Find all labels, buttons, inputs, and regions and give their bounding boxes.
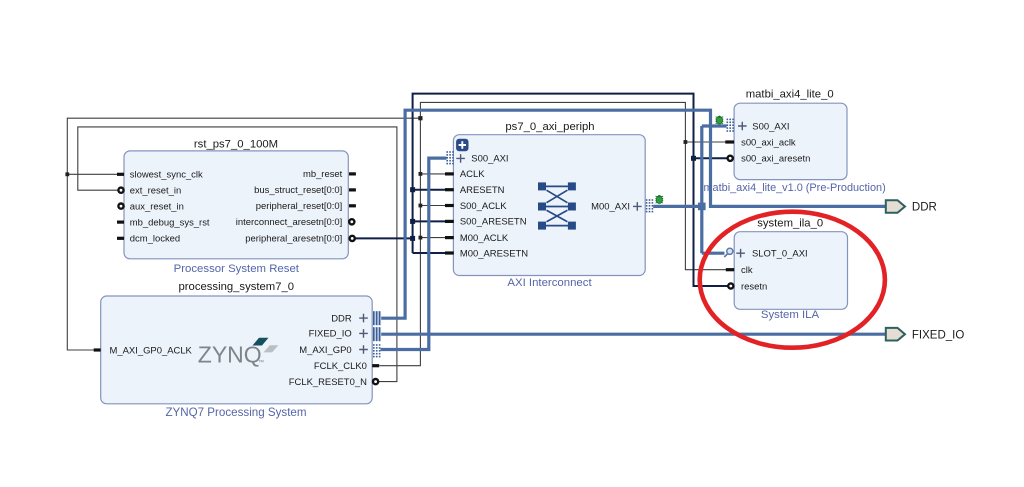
svg-text:S00_ACLK: S00_ACLK [460, 201, 507, 212]
svg-text:ZYNQ7 Processing System: ZYNQ7 Processing System [165, 406, 306, 419]
svg-text:s00_axi_aresetn: s00_axi_aresetn [741, 154, 810, 165]
svg-text:peripheral_aresetn[0:0]: peripheral_aresetn[0:0] [245, 233, 342, 244]
svg-text:S00_AXI: S00_AXI [471, 153, 508, 164]
svg-text:clk: clk [741, 265, 753, 276]
svg-text:ps7_0_axi_periph: ps7_0_axi_periph [505, 121, 594, 133]
svg-text:M00_ARESETN: M00_ARESETN [460, 248, 528, 259]
svg-text:DDR: DDR [331, 313, 352, 324]
svg-text:System ILA: System ILA [761, 309, 820, 321]
svg-text:matbi_axi4_lite_0: matbi_axi4_lite_0 [746, 89, 834, 101]
svg-text:FCLK_RESET0_N: FCLK_RESET0_N [289, 377, 367, 388]
svg-text:M_AXI_GP0: M_AXI_GP0 [299, 345, 351, 356]
svg-text:s00_axi_aclk: s00_axi_aclk [741, 137, 796, 148]
svg-text:M00_AXI: M00_AXI [591, 202, 630, 213]
svg-text:interconnect_aresetn[0:0]: interconnect_aresetn[0:0] [236, 217, 343, 228]
svg-text:AXI Interconnect: AXI Interconnect [507, 277, 592, 289]
svg-text:FIXED_IO: FIXED_IO [912, 329, 964, 341]
svg-text:DDR: DDR [912, 202, 937, 214]
svg-text:M00_ACLK: M00_ACLK [460, 233, 509, 244]
svg-text:matbi_axi4_lite_v1.0 (Pre-Prod: matbi_axi4_lite_v1.0 (Pre-Production) [703, 182, 885, 194]
svg-text:M_AXI_GP0_ACLK: M_AXI_GP0_ACLK [110, 345, 193, 356]
svg-text:mb_reset: mb_reset [303, 169, 343, 180]
svg-text:system_ila_0: system_ila_0 [757, 218, 823, 230]
svg-text:S00_AXI: S00_AXI [752, 121, 789, 132]
svg-text:Processor System Reset: Processor System Reset [174, 263, 300, 275]
svg-text:™: ™ [258, 359, 264, 366]
svg-text:S00_ARESETN: S00_ARESETN [460, 217, 527, 228]
svg-text:rst_ps7_0_100M: rst_ps7_0_100M [194, 138, 278, 150]
svg-text:ARESETN: ARESETN [460, 185, 505, 196]
svg-text:processing_system7_0: processing_system7_0 [179, 281, 295, 293]
svg-text:mb_debug_sys_rst: mb_debug_sys_rst [130, 217, 210, 228]
svg-text:bus_struct_reset[0:0]: bus_struct_reset[0:0] [254, 185, 342, 196]
svg-text:ext_reset_in: ext_reset_in [130, 186, 181, 197]
svg-text:peripheral_reset[0:0]: peripheral_reset[0:0] [256, 201, 343, 212]
svg-text:FCLK_CLK0: FCLK_CLK0 [314, 361, 367, 372]
svg-text:aux_reset_in: aux_reset_in [130, 201, 184, 212]
svg-text:ZYNQ: ZYNQ [198, 342, 262, 368]
svg-text:dcm_locked: dcm_locked [130, 234, 180, 245]
svg-text:FIXED_IO: FIXED_IO [309, 329, 352, 340]
svg-text:slowest_sync_clk: slowest_sync_clk [130, 170, 203, 181]
svg-text:ACLK: ACLK [460, 169, 485, 180]
svg-text:resetn: resetn [741, 281, 767, 292]
svg-text:SLOT_0_AXI: SLOT_0_AXI [752, 249, 808, 260]
